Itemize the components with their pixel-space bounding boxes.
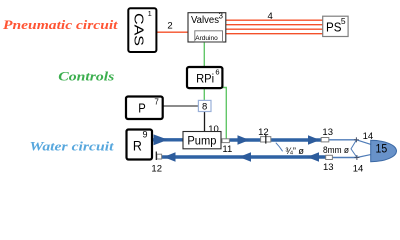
connector 11 pump outlet xyxy=(222,139,232,155)
svg-text:9: 9 xyxy=(142,130,147,140)
pipe bottom thick (return) xyxy=(162,155,326,158)
pipe funnel bottom to nozzle xyxy=(357,154,371,157)
connector 13 bottom xyxy=(323,155,334,173)
pipe funnel top to nozzle xyxy=(356,140,371,145)
arrow left 2 xyxy=(239,152,251,162)
svg-text:7: 7 xyxy=(154,98,159,107)
svg-text:CAS: CAS xyxy=(132,13,147,46)
svg-text:14: 14 xyxy=(353,163,364,174)
box PS5 xyxy=(323,16,348,37)
svg-text:Pneumatic circuit: Pneumatic circuit xyxy=(3,18,118,32)
svg-text:Pump: Pump xyxy=(187,134,216,148)
connector union 12 top xyxy=(258,127,271,144)
svg-text:8: 8 xyxy=(202,101,207,112)
wire black P to box 8 xyxy=(163,105,199,107)
arrow left 1 xyxy=(164,152,176,162)
wire red bundle Valves to PS (4 lines) xyxy=(226,20,323,34)
svg-text:13: 13 xyxy=(322,127,333,138)
box Valves U3 xyxy=(188,11,226,42)
pipe thin bottom 8mm xyxy=(332,157,357,159)
svg-text:4: 4 xyxy=(268,11,273,22)
svg-text:15: 15 xyxy=(376,143,388,155)
box CAS xyxy=(128,8,156,52)
svg-text:3: 3 xyxy=(218,11,223,20)
svg-text:Water circuit: Water circuit xyxy=(30,139,114,154)
wire green RPi right to pump connector xyxy=(222,88,226,140)
svg-text:Valves: Valves xyxy=(191,15,219,26)
connector cross 14 top xyxy=(354,131,373,142)
wire green RPi to box 8 xyxy=(203,88,205,100)
arrow right 2 xyxy=(238,135,250,145)
pipe thin top 8mm xyxy=(329,139,357,141)
svg-text:P: P xyxy=(138,100,146,115)
svg-text:¾” ø: ¾” ø xyxy=(285,146,304,157)
leader 8mm bracket xyxy=(351,140,357,157)
pipe top thick (Pump to 13) xyxy=(229,138,321,141)
svg-text:Controls: Controls xyxy=(58,69,114,83)
arrow right 1 xyxy=(154,134,169,145)
connector union 12 at R xyxy=(151,152,162,175)
svg-text:13: 13 xyxy=(323,162,334,173)
leader 3/4 inch xyxy=(276,143,283,152)
svg-text:12: 12 xyxy=(258,127,269,138)
wire black box 8 to Pump xyxy=(204,112,206,132)
svg-text:PS: PS xyxy=(326,20,342,34)
svg-text:12: 12 xyxy=(151,164,162,175)
svg-text:11: 11 xyxy=(222,144,232,155)
wire red CAS to Valves xyxy=(156,31,188,33)
box Pump xyxy=(183,132,221,149)
svg-text:8mm ø: 8mm ø xyxy=(323,145,349,156)
wire green Arduino to RPi xyxy=(203,42,205,67)
nozzle 15 xyxy=(371,140,397,161)
svg-text:Arduino: Arduino xyxy=(195,35,218,42)
pipe top thick (R to Pump) xyxy=(152,138,183,141)
arrow right 3 xyxy=(308,135,320,145)
arrow left 3 xyxy=(307,152,319,162)
box P7 xyxy=(126,97,163,120)
svg-text:RPi: RPi xyxy=(196,72,214,86)
svg-text:6: 6 xyxy=(215,68,219,77)
connector 13 top xyxy=(321,127,333,142)
box R9 xyxy=(127,130,153,160)
box 8 relay xyxy=(198,100,211,112)
svg-text:R: R xyxy=(133,138,142,154)
svg-text:1: 1 xyxy=(148,9,152,18)
svg-text:2: 2 xyxy=(167,21,172,32)
connector cross 14 bottom xyxy=(353,155,364,174)
box Arduino xyxy=(195,31,223,42)
svg-text:5: 5 xyxy=(341,16,346,26)
box RPi6 xyxy=(187,67,222,88)
